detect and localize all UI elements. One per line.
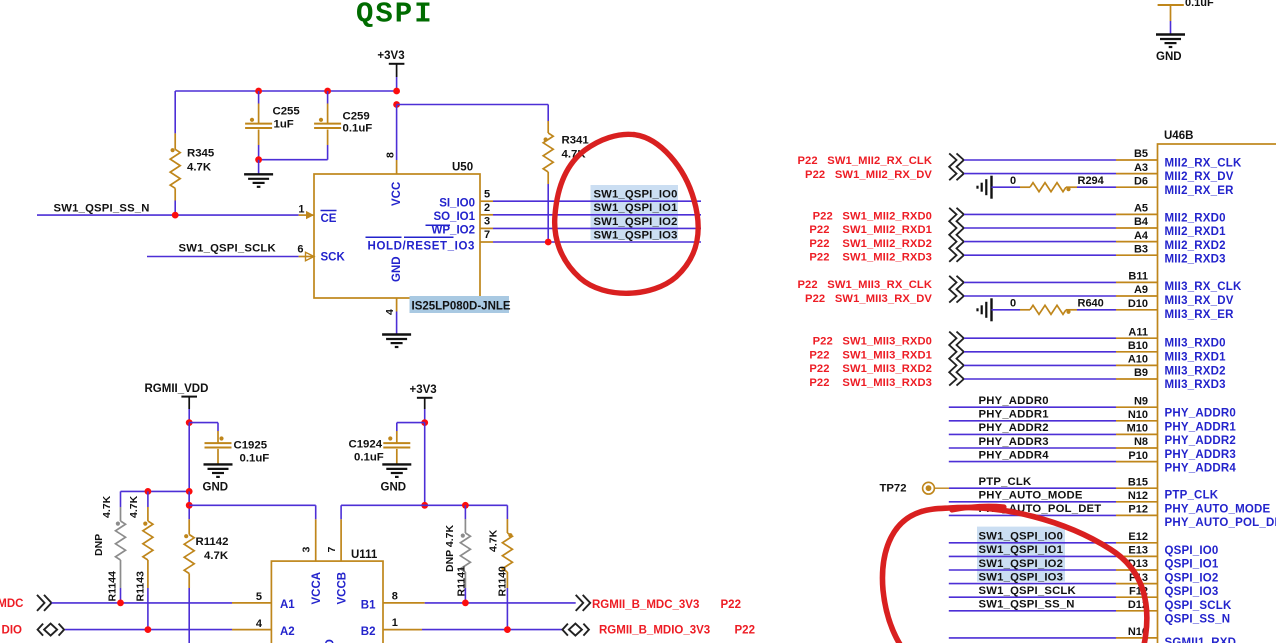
svg-text:0: 0 (1010, 298, 1016, 310)
svg-text:SW1_QSPI_IO0: SW1_QSPI_IO0 (979, 531, 1064, 543)
svg-text:QSPI_SS_N: QSPI_SS_N (1165, 614, 1231, 626)
pin 5 SI_IO0 lead and wire (480, 188, 701, 201)
pin name PHY_ADDR4 (1165, 463, 1237, 475)
resistor R1144 (DNP) (93, 491, 126, 603)
pin name GND (U50) (391, 256, 403, 282)
svg-text:SGMII1_RXD: SGMII1_RXD (1165, 637, 1237, 643)
svg-text:PHY_ADDR1: PHY_ADDR1 (979, 409, 1049, 421)
svg-text:VCCB: VCCB (337, 572, 349, 605)
junction (R1141 top) (462, 502, 469, 509)
wire pullup top bus (121, 490, 190, 492)
pin name SI_IO0 (439, 197, 475, 209)
pin D10 MII3_RX_ER lead (1116, 298, 1158, 310)
junction (R1143 bottom) (145, 626, 152, 633)
svg-text:MII3_RXD0: MII3_RXD0 (1165, 338, 1226, 350)
wire +3V3 stem (396, 77, 398, 91)
svg-text:B1: B1 (361, 600, 376, 612)
svg-text:PHY_AUTO_MODE: PHY_AUTO_MODE (979, 490, 1083, 502)
wire SW1_MII3_RXD3 (964, 378, 1116, 380)
node SW1_MII2_RXD0 label (813, 210, 932, 222)
svg-text:B3: B3 (1134, 243, 1148, 255)
svg-text:E12: E12 (1128, 531, 1148, 543)
wire RGMII_B_MDC_3V3 (425, 602, 576, 604)
junction (C259 top) (324, 88, 331, 95)
node PHY_ADDR1 label and wire (949, 409, 1116, 421)
svg-text:N10: N10 (1128, 409, 1148, 421)
pin name PHY_AUTO_POL_DET (1165, 517, 1276, 529)
wire VCC bus (175, 90, 396, 92)
svg-text:P22 SW1_MII3_RX_DV: P22 SW1_MII3_RX_DV (805, 293, 932, 305)
node PHY_ADDR2 label and wire (949, 422, 1116, 434)
svg-text:MII3_RXD2: MII3_RXD2 (1165, 365, 1226, 377)
pin 7 VCCB lead (326, 519, 341, 561)
node SW1_MII3_RXD0 label (813, 336, 932, 348)
svg-text:SW1_QSPI_IO1: SW1_QSPI_IO1 (979, 544, 1064, 556)
svg-text:1: 1 (392, 617, 398, 629)
svg-text:B9: B9 (1134, 367, 1148, 379)
svg-text:P22 SW1_MII2_RXD3: P22 SW1_MII2_RXD3 (809, 252, 932, 264)
pin name PHY_ADDR0 (1165, 408, 1236, 420)
svg-text:R345: R345 (187, 148, 215, 160)
pin name SO_IO1 (433, 211, 475, 223)
svg-text:MII2_RX_ER: MII2_RX_ER (1165, 185, 1235, 197)
svg-text:P12: P12 (1128, 504, 1148, 516)
svg-text:B5: B5 (1134, 148, 1148, 160)
svg-text:QSPI_IO0: QSPI_IO0 (1165, 545, 1219, 557)
wire RGMII_B_MDIO_3V3 (422, 629, 562, 631)
wire SW1_MII2_RX_CLK (964, 159, 1116, 161)
pin B11 MII3_RX_CLK lead (1116, 271, 1158, 283)
svg-text:R1143: R1143 (135, 571, 147, 602)
svg-text:4.7K: 4.7K (187, 162, 212, 174)
svg-text:B10: B10 (1128, 340, 1148, 352)
node SW1_MII2_RX_DV label (805, 169, 932, 181)
svg-text:0.1uF: 0.1uF (240, 453, 270, 465)
power +3V3 (QSPI) (377, 50, 404, 77)
wire SW1_MII2_RXD2 (964, 241, 1116, 243)
node PHY_AUTO_MODE label and wire (949, 490, 1116, 502)
annotation red circle (QSPI IO nets) (555, 134, 699, 293)
pin N12 PHY_AUTO_MODE lead (1116, 490, 1158, 502)
svg-text:B4: B4 (1134, 216, 1149, 228)
svg-text:N9: N9 (1134, 395, 1148, 407)
pin A3 MII2_RX_DV lead (1116, 162, 1158, 174)
svg-text:4: 4 (256, 618, 263, 630)
pin name PHY_ADDR3 (1165, 449, 1236, 461)
pin name D (partial bottom) (325, 639, 337, 643)
svg-text:B15: B15 (1128, 476, 1148, 488)
resistor R341 (543, 121, 589, 242)
svg-text:0.1uF: 0.1uF (1185, 0, 1214, 9)
wire +3V3 stem 2 (424, 409, 426, 423)
svg-text:+3V3: +3V3 (410, 384, 437, 396)
svg-text:A11: A11 (1128, 326, 1148, 338)
pin B10 MII3_RXD1 lead (1116, 340, 1158, 352)
junction (R1141 bottom) (462, 600, 469, 607)
pin name MII2_RXD3 (1165, 254, 1226, 266)
pin A4 MII2_RXD2 lead (1116, 230, 1158, 242)
pin name MII3_RX_CLK (1165, 281, 1242, 293)
svg-text:R1141: R1141 (456, 566, 468, 597)
node SW1_MII2_RXD1 label (809, 224, 932, 236)
pin N8 PHY_ADDR3 lead (1116, 436, 1158, 448)
svg-text:4.7K: 4.7K (488, 529, 500, 552)
svg-text:WP_IO2: WP_IO2 (432, 225, 475, 237)
svg-text:QSPI_SCLK: QSPI_SCLK (1165, 600, 1232, 612)
svg-text:U46B: U46B (1164, 130, 1193, 142)
node SW1_MII3_RXD2 label (809, 363, 932, 375)
off-page connector MDC (37, 595, 52, 611)
pin name MII3_RXD0 (1165, 338, 1226, 350)
svg-text:VCCA: VCCA (311, 572, 323, 605)
junction (R1144 bottom) (117, 600, 124, 607)
pin name A2 (280, 626, 295, 638)
node SW1_QSPI_IO2 label and wire (949, 558, 1116, 570)
power +3V3 (level shifter) (410, 384, 437, 409)
svg-text:SW1_QSPI_IO2: SW1_QSPI_IO2 (979, 558, 1064, 570)
svg-text:5: 5 (484, 188, 490, 200)
svg-text:MII2_RXD3: MII2_RXD3 (1165, 254, 1226, 266)
junction (R1140 bottom) (504, 626, 511, 633)
svg-text:P22 SW1_MII2_RXD1: P22 SW1_MII2_RXD1 (809, 224, 932, 236)
junction (rail B) (421, 502, 428, 509)
pin F12 QSPI_SCLK lead (1116, 585, 1158, 597)
resistor R1141 (DNP) (444, 505, 470, 603)
svg-text:P10: P10 (1128, 450, 1148, 462)
svg-text:DNP 4.7K: DNP 4.7K (444, 525, 456, 572)
svg-text:+3V3: +3V3 (377, 50, 404, 62)
svg-text:SW1_QSPI_IO0: SW1_QSPI_IO0 (594, 189, 678, 201)
wire SW1_MII2_RXD3 (964, 254, 1116, 256)
svg-text:3: 3 (301, 547, 313, 553)
node SW1_QSPI_IO1 label and wire (949, 544, 1116, 556)
svg-text:1: 1 (298, 203, 304, 215)
pin name MII2_RX_CLK (1165, 157, 1242, 169)
svg-text:P22 SW1_MII2_RXD2: P22 SW1_MII2_RXD2 (809, 238, 932, 250)
svg-text:A5: A5 (1134, 203, 1148, 215)
svg-text:A4: A4 (1134, 230, 1149, 242)
pin 8 VCC lead (385, 105, 397, 175)
pin name CE (overline) (321, 211, 337, 226)
svg-text:VCC: VCC (391, 182, 403, 206)
svg-text:RGMII_VDD: RGMII_VDD (145, 383, 209, 395)
pin name PHY_ADDR2 (1165, 435, 1236, 447)
svg-text:HOLD/RESET_IO3: HOLD/RESET_IO3 (368, 240, 475, 252)
node SW1_QSPI_SCLK label (179, 242, 277, 254)
node SW1_QSPI_IO2 label (highlighted) (594, 216, 678, 228)
junction (R1143 top) (145, 488, 152, 495)
svg-text:8: 8 (392, 591, 398, 603)
svg-text:PHY_ADDR3: PHY_ADDR3 (1165, 449, 1236, 461)
pin F13 QSPI_IO3 lead (1116, 572, 1158, 584)
svg-text:1uF: 1uF (274, 119, 294, 131)
pin D12 QSPI_SS_N lead (1116, 599, 1158, 611)
pin name QSPI_IO2 (1165, 572, 1219, 584)
svg-text:QSPI_IO3: QSPI_IO3 (1165, 586, 1219, 598)
pin B5 MII2_RX_CLK lead (1116, 148, 1158, 160)
pin name QSPI_IO0 (1165, 545, 1219, 557)
svg-text:QSPI: QSPI (356, 0, 434, 31)
capacitor C259 0.1uF (314, 91, 372, 160)
node SW1_MII3_RXD1 label (809, 349, 932, 361)
svg-text:PTP_CLK: PTP_CLK (1165, 490, 1219, 502)
pin name QSPI_IO1 (1165, 559, 1219, 571)
capacitor 0.1uF (partial, top right) (1158, 0, 1214, 34)
resistor R1142 (184, 519, 229, 643)
off-page connector RGMII_B_MDIO_3V3 (562, 624, 589, 636)
off-page connector group SW1_MII2_RX_CLK (949, 153, 964, 180)
svg-text:MII2_RXD1: MII2_RXD1 (1165, 226, 1227, 238)
pin 5 A1 lead (232, 591, 271, 603)
pin name PHY_ADDR1 (1165, 421, 1237, 433)
pin B9 MII3_RXD3 lead (1116, 367, 1158, 379)
svg-text:P22 SW1_MII3_RXD0: P22 SW1_MII3_RXD0 (813, 336, 932, 348)
wire RGMII_VDD stem (188, 409, 190, 423)
resistor R345 (170, 91, 215, 215)
wire SW1_MII3_RX_DV (964, 295, 1116, 297)
junction (cap gnd) (255, 156, 262, 163)
svg-text:MII2_RX_DV: MII2_RX_DV (1165, 171, 1234, 183)
svg-text:U50: U50 (452, 162, 473, 174)
annotation red circle (QSPI pins) (882, 506, 1146, 643)
wire to ground (258, 160, 260, 174)
svg-text:TP72: TP72 (880, 482, 907, 494)
svg-text:C259: C259 (343, 111, 370, 123)
wire rail to R1142 (188, 491, 190, 519)
wire SW1_MII3_RXD2 (964, 364, 1116, 366)
svg-text:PHY_AUTO_POL_DET: PHY_AUTO_POL_DET (1165, 517, 1276, 529)
svg-text:P22: P22 (721, 599, 741, 611)
op-amp U111 body (level shifter) (271, 549, 383, 643)
svg-text:C255: C255 (273, 106, 301, 118)
svg-text:P22 SW1_MII3_RXD2: P22 SW1_MII3_RXD2 (809, 363, 932, 375)
svg-text:P22 SW1_MII2_RX_DV: P22 SW1_MII2_RX_DV (805, 169, 932, 181)
svg-text:B11: B11 (1128, 271, 1148, 283)
svg-text:5: 5 (256, 591, 262, 603)
pin M10 PHY_ADDR2 lead (1116, 423, 1158, 435)
wire SGMII row N16 (949, 637, 1116, 639)
svg-text:0.1uF: 0.1uF (354, 452, 384, 464)
junction (+3V3 node) (393, 88, 400, 95)
svg-text:P22 SW1_MII3_RXD3: P22 SW1_MII3_RXD3 (809, 377, 932, 389)
svg-text:GND: GND (381, 482, 407, 494)
svg-text:P22 SW1_MII3_RXD1: P22 SW1_MII3_RXD1 (809, 349, 932, 361)
highlight behind SW1_QSPI pin labels (977, 527, 1065, 582)
pin name VCCA (311, 572, 323, 605)
wire SW1_QSPI_SS_N (37, 214, 299, 216)
node RGMII_B_MDIO_3V3 label (599, 625, 755, 637)
wire MDIO (65, 629, 232, 631)
svg-text:RGMII_B_MDIO_3V3: RGMII_B_MDIO_3V3 (599, 625, 710, 637)
pin name PTP_CLK (1165, 490, 1219, 502)
pin name MII3_RXD2 (1165, 365, 1226, 377)
svg-text:MDC: MDC (0, 598, 24, 610)
svg-text:MII2_RXD2: MII2_RXD2 (1165, 240, 1226, 252)
svg-text:SW1_QSPI_SS_N: SW1_QSPI_SS_N (54, 203, 150, 215)
capacitor C1925 0.1uF (189, 423, 269, 465)
pin name QSPI_SCLK (1165, 600, 1232, 612)
svg-text:N8: N8 (1134, 436, 1148, 448)
wire cap commons (259, 159, 328, 161)
svg-text:N12: N12 (1128, 490, 1148, 502)
svg-text:R341: R341 (562, 135, 590, 147)
svg-text:PHY_AUTO_MODE: PHY_AUTO_MODE (1165, 503, 1271, 515)
wire +3V3 rail (424, 423, 426, 506)
node PTP_CLK label and wire (935, 476, 1117, 488)
svg-text:MII3_RX_CLK: MII3_RX_CLK (1165, 281, 1242, 293)
pin name MII2_RX_DV (1165, 171, 1234, 183)
node SW1_QSPI_IO3 label (highlighted) (594, 229, 678, 241)
svg-text:DNP: DNP (93, 534, 105, 556)
svg-text:PHY_ADDR2: PHY_ADDR2 (1165, 435, 1236, 447)
off-page connector group SW1_MII2_RXD0 (949, 208, 964, 262)
resistor R640 0 ohm with ground (978, 297, 1117, 321)
pin 7 HOLD/RESET_IO3 lead and wire (480, 229, 701, 242)
pin A9 MII3_RX_DV lead (1116, 284, 1158, 296)
svg-text:6: 6 (297, 244, 303, 256)
node SW1_MII3_RX_CLK label (797, 279, 932, 291)
svg-text:PHY_ADDR3: PHY_ADDR3 (979, 436, 1049, 448)
wire pin 7 drop (340, 505, 342, 519)
ground (U50 pin4) (382, 335, 411, 348)
svg-text:SW1_QSPI_IO3: SW1_QSPI_IO3 (594, 229, 678, 241)
svg-text:GND: GND (391, 256, 403, 282)
pin name MII3_RX_ER (1165, 309, 1235, 321)
node SW1_QSPI_SCLK label and wire (949, 585, 1116, 597)
pin D6 MII2_RX_ER lead (1116, 175, 1158, 187)
pin B4 MII2_RXD1 lead (1116, 216, 1158, 228)
junction (R341 branch) (393, 101, 400, 108)
pin name MII2_RXD0 (1165, 212, 1226, 224)
pin 1 B2 lead (383, 617, 422, 629)
resistor R1143 (128, 491, 153, 629)
ground (C255/C259) (244, 174, 273, 187)
pin N10 PHY_ADDR1 lead (1116, 409, 1158, 421)
pin A11 MII3_RXD0 lead (1116, 326, 1158, 338)
svg-text:R640: R640 (1078, 297, 1104, 309)
node PHY_AUTO_POL_DET label and wire (949, 503, 1116, 515)
junction (rail/pullup bus) (186, 488, 193, 495)
node PHY_ADDR0 label and wire (949, 395, 1116, 407)
svg-text:SW1_QSPI_IO3: SW1_QSPI_IO3 (979, 571, 1064, 583)
pin 3 WP_IO2 lead and wire (480, 216, 701, 229)
pin name WP_IO2 (overline WP) (426, 225, 476, 237)
pin name PHY_AUTO_MODE (1165, 503, 1271, 515)
svg-text:R1140: R1140 (497, 566, 509, 597)
junction (C255 top) (255, 88, 262, 95)
node SW1_QSPI_IO0 label and wire (949, 531, 1116, 543)
svg-text:D: D (325, 639, 337, 643)
svg-text:4.7K: 4.7K (101, 495, 113, 518)
power RGMII_VDD (145, 383, 209, 409)
pin 8 B1 lead (383, 591, 425, 603)
node PHY_ADDR3 label and wire (949, 436, 1116, 448)
svg-text:P22 SW1_MII2_RXD0: P22 SW1_MII2_RXD0 (813, 210, 932, 222)
value IS25LP080D-JNLE (highlighted) (410, 296, 511, 313)
svg-text:E13: E13 (1128, 545, 1148, 557)
svg-text:4.7K: 4.7K (128, 495, 140, 518)
svg-text:PHY_ADDR4: PHY_ADDR4 (979, 449, 1050, 461)
ground (C1924) (381, 464, 412, 493)
pin name MII3_RX_DV (1165, 295, 1234, 307)
pin N9 PHY_ADDR0 lead (1116, 395, 1158, 407)
svg-text:QSPI_IO2: QSPI_IO2 (1165, 572, 1219, 584)
node RGMII_B_MDC_3V3 label (592, 599, 741, 611)
svg-text:GND: GND (1156, 51, 1182, 63)
pin B15 PTP_CLK lead (1116, 476, 1158, 488)
pin E12 QSPI_IO0 lead (1116, 531, 1158, 543)
title QSPI (356, 0, 434, 31)
junction (R345 to SS_N) (172, 212, 179, 219)
svg-text:D10: D10 (1128, 298, 1148, 310)
svg-text:PHY_ADDR2: PHY_ADDR2 (979, 422, 1049, 434)
pin E13 QSPI_IO1 lead (1116, 545, 1158, 557)
pin P12 PHY_AUTO_POL_DET lead (1116, 504, 1158, 516)
node SW1_MII2_RX_CLK label (797, 155, 932, 167)
svg-text:DIO: DIO (2, 625, 23, 637)
svg-text:MII2_RXD0: MII2_RXD0 (1165, 212, 1226, 224)
node SW1_MII2_RXD2 label (809, 238, 932, 250)
svg-text:QSPI_IO1: QSPI_IO1 (1165, 559, 1219, 571)
wire to pin 3 (189, 505, 316, 519)
op-amp U46B body (PHY) (1158, 130, 1276, 643)
wire SW1_QSPI_SCLK (147, 256, 299, 258)
svg-text:MII2_RX_CLK: MII2_RX_CLK (1165, 157, 1242, 169)
svg-text:SW1_QSPI_IO1: SW1_QSPI_IO1 (594, 202, 678, 214)
svg-text:C1924: C1924 (349, 439, 383, 451)
svg-text:SW1_QSPI_IO2: SW1_QSPI_IO2 (594, 216, 678, 228)
wire SW1_MII2_RXD0 (964, 213, 1116, 215)
svg-text:P22 SW1_MII2_RX_CLK: P22 SW1_MII2_RX_CLK (797, 155, 932, 167)
pin name MII2_RXD2 (1165, 240, 1226, 252)
junction (pin3 branch) (186, 502, 193, 509)
capacitor C1924 0.1uF (349, 423, 425, 464)
svg-text:7: 7 (484, 229, 490, 241)
svg-text:B2: B2 (361, 626, 376, 638)
pin name VCC (391, 182, 403, 206)
svg-text:D6: D6 (1134, 175, 1148, 187)
node SW1_QSPI_SS_N label (54, 203, 150, 215)
pin N16 SGMII1_RXD lead (1116, 626, 1158, 638)
node SW1_QSPI_IO1 label (highlighted) (594, 202, 678, 214)
svg-text:P22 SW1_MII3_RX_CLK: P22 SW1_MII3_RX_CLK (797, 279, 932, 291)
svg-text:7: 7 (326, 547, 338, 553)
wire SW1_MII3_RX_CLK (964, 281, 1116, 283)
svg-text:2: 2 (484, 202, 490, 214)
pin name B1 (361, 600, 376, 612)
wire SW1_MII3_RXD1 (964, 351, 1116, 353)
off-page connector RGMII_B_MDC_3V3 (576, 595, 591, 611)
svg-text:PHY_ADDR4: PHY_ADDR4 (1165, 463, 1237, 475)
pin name B2 (361, 626, 376, 638)
svg-text:PHY_ADDR0: PHY_ADDR0 (1165, 408, 1236, 420)
pin 4 A2 lead (232, 618, 271, 630)
off-page connector MDIO (38, 624, 65, 636)
svg-text:SCK: SCK (321, 252, 346, 264)
op-amp U50 body (IS25LP080D flash) (314, 162, 480, 299)
svg-text:R1142: R1142 (196, 536, 229, 548)
wire pin7 bus (341, 504, 507, 506)
off-page connector group SW1_MII3_RXD0 (949, 332, 964, 386)
svg-text:A3: A3 (1134, 162, 1148, 174)
ground (top right) (1156, 35, 1185, 64)
pin A5 MII2_RXD0 lead (1116, 203, 1158, 215)
junction (R341 to IO3) (545, 239, 552, 246)
pin 1 CE lead (298, 203, 314, 219)
node SW1_MII3_RX_DV label (805, 293, 932, 305)
svg-text:MII3_RXD3: MII3_RXD3 (1165, 379, 1226, 391)
svg-text:A1: A1 (280, 599, 295, 611)
